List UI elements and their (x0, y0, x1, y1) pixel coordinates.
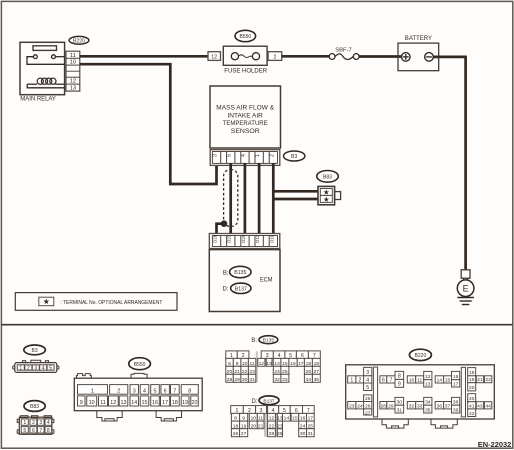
svg-text:SBF-7: SBF-7 (335, 47, 352, 53)
svg-text:12: 12 (425, 374, 431, 380)
svg-text:4: 4 (42, 366, 45, 372)
label B83 ellipse (317, 171, 339, 183)
svg-text:5: 5 (49, 366, 52, 372)
svg-text:31: 31 (249, 377, 255, 383)
svg-text:15: 15 (445, 378, 451, 384)
svg-text:21: 21 (477, 377, 483, 383)
svg-text:4: 4 (47, 420, 50, 426)
svg-text:3: 3 (366, 370, 369, 376)
svg-text:4: 4 (143, 388, 146, 394)
svg-text:2: 2 (359, 378, 362, 384)
svg-text:1: 1 (91, 388, 94, 394)
wire branch to joint connector upper (273, 190, 318, 193)
connector B550 pinout (74, 373, 202, 421)
svg-text:3: 3 (213, 154, 219, 157)
svg-text:35: 35 (425, 407, 431, 413)
relay coil L1 (27, 83, 37, 85)
legend box (15, 293, 177, 311)
svg-text:TEMPERATURE: TEMPERATURE (223, 120, 268, 127)
ground (457, 298, 474, 305)
svg-text:39: 39 (453, 407, 459, 413)
svg-text:6: 6 (164, 388, 167, 394)
svg-text:17: 17 (162, 400, 168, 406)
svg-text:B83: B83 (30, 404, 39, 410)
wire B3-4 to ECM D29 (244, 163, 247, 236)
svg-text:B550: B550 (239, 34, 251, 40)
svg-text:6: 6 (32, 428, 35, 434)
svg-text:30: 30 (300, 431, 306, 437)
svg-text:42: 42 (469, 411, 475, 417)
wire pin11 to fuse holder (80, 55, 209, 58)
svg-text:41: 41 (469, 403, 475, 409)
svg-text:7: 7 (389, 378, 392, 384)
fuse SBF-7 (329, 47, 359, 59)
group 10-13 (407, 376, 415, 383)
group 40-44 (468, 394, 476, 402)
svg-text:B:: B: (223, 270, 229, 276)
svg-text:B135: B135 (234, 270, 246, 276)
group 28-31 (380, 402, 387, 409)
svg-text:17: 17 (298, 361, 304, 367)
svg-text:31: 31 (397, 407, 403, 413)
svg-text:11: 11 (417, 378, 422, 384)
ground E circle (457, 278, 474, 296)
svg-text:27: 27 (241, 431, 247, 437)
wire battery to ground (433, 57, 465, 270)
wire contact right arm to pin 11 (55, 56, 64, 58)
connector B220 pinout (346, 365, 495, 428)
svg-text:15: 15 (142, 400, 148, 406)
svg-text:44: 44 (485, 403, 491, 409)
svg-text:14: 14 (284, 416, 290, 422)
svg-text:19: 19 (182, 400, 188, 406)
wire pin10 to sensor pin3 (80, 64, 217, 184)
wire B3-2 to ECM D10 (272, 163, 275, 236)
svg-text:E: E (463, 283, 469, 293)
svg-text:9: 9 (80, 400, 83, 406)
svg-text:29: 29 (388, 403, 394, 409)
svg-text:16: 16 (290, 361, 296, 367)
row1 (226, 351, 238, 359)
junction shield drain (221, 220, 228, 227)
svg-text:D29: D29 (241, 234, 246, 243)
group 18-22 (468, 368, 476, 376)
svg-text:6: 6 (382, 378, 385, 384)
svg-text:1: 1 (23, 420, 26, 426)
svg-text:30: 30 (397, 400, 403, 406)
svg-text:33: 33 (282, 377, 288, 383)
svg-text:27: 27 (365, 410, 371, 416)
label B220 ellipse (pinout) (409, 349, 431, 360)
ground terminal box (461, 270, 470, 278)
svg-text:14: 14 (131, 400, 137, 406)
svg-text:B550: B550 (134, 362, 146, 368)
svg-text:13: 13 (266, 361, 272, 367)
wire B3-1 to ECM D12 (258, 163, 261, 236)
svg-text:3: 3 (133, 388, 136, 394)
svg-text:8: 8 (188, 388, 191, 394)
row3 (226, 366, 234, 374)
svg-text:ECM: ECM (260, 276, 273, 283)
svg-text:1: 1 (350, 378, 353, 384)
connector B83 pinout (17, 416, 54, 435)
sensor U1 MASS AIR FLOW box (210, 86, 281, 148)
svg-text:B135: B135 (263, 338, 275, 344)
svg-text:12: 12 (110, 400, 116, 406)
svg-text:D12: D12 (255, 234, 260, 243)
svg-text:38: 38 (453, 400, 459, 406)
svg-text:43: 43 (477, 403, 483, 409)
wire contact left arm to pin 10 (27, 57, 65, 65)
group 1-5 (348, 376, 356, 383)
svg-text:3: 3 (39, 420, 42, 426)
svg-text:D:: D: (252, 399, 258, 405)
svg-text:11: 11 (70, 53, 76, 59)
svg-text:1: 1 (19, 366, 22, 372)
svg-text:5: 5 (227, 154, 233, 157)
connector B135 pinout (251, 336, 277, 345)
svg-text:B220: B220 (415, 353, 427, 359)
svg-text:1: 1 (255, 154, 261, 157)
svg-text:34: 34 (425, 400, 431, 406)
svg-text:29: 29 (234, 377, 240, 383)
connector B3 pinout (13, 360, 59, 372)
relay contact terminal right (52, 55, 56, 59)
svg-text:16: 16 (453, 374, 459, 380)
svg-text:34: 34 (306, 377, 312, 383)
connector B137 pinout (252, 396, 280, 405)
svg-text:7: 7 (39, 428, 42, 434)
group 6-9 (380, 376, 387, 383)
svg-text:D28: D28 (213, 234, 218, 243)
svg-text:12: 12 (259, 361, 265, 367)
svg-text:33: 33 (417, 403, 423, 409)
svg-text:32: 32 (274, 377, 280, 383)
svg-text:8: 8 (398, 374, 401, 380)
group 32-35 (407, 402, 415, 409)
svg-text:29: 29 (277, 431, 283, 437)
relay contact terminal left (34, 55, 38, 59)
svg-text:19: 19 (469, 377, 475, 383)
svg-text:11: 11 (100, 400, 106, 406)
svg-text:3: 3 (34, 366, 37, 372)
svg-text:15: 15 (292, 416, 298, 422)
svg-text:25: 25 (365, 396, 371, 402)
svg-text:16: 16 (152, 400, 158, 406)
svg-text:5: 5 (154, 388, 157, 394)
svg-text:9: 9 (398, 382, 401, 388)
group 23-27 (348, 402, 356, 409)
row4 (231, 429, 239, 437)
svg-text:FUSE HOLDER: FUSE HOLDER (224, 68, 267, 75)
svg-text:5: 5 (366, 385, 369, 391)
wire coil return to pin 13 (27, 84, 64, 88)
svg-text:40: 40 (469, 396, 475, 402)
label B3 ellipse (284, 151, 305, 161)
svg-text:D:: D: (223, 287, 229, 293)
svg-text:B3: B3 (32, 348, 38, 354)
svg-text:MAIN RELAY: MAIN RELAY (20, 96, 56, 103)
svg-text:4: 4 (366, 378, 369, 384)
svg-text:B220: B220 (73, 38, 85, 44)
row2 cells 9-20 (78, 396, 86, 406)
svg-text:2: 2 (27, 366, 30, 372)
svg-text:8: 8 (47, 428, 50, 434)
svg-text:: TERMINAL No. OPTIONAL ARRANG: : TERMINAL No. OPTIONAL ARRANGEMENT (60, 300, 163, 306)
label B83 ellipse (pinout) (24, 401, 45, 412)
svg-text:18: 18 (172, 400, 178, 406)
svg-text:20: 20 (192, 400, 198, 406)
svg-text:B3: B3 (291, 154, 297, 160)
svg-text:7: 7 (173, 388, 176, 394)
svg-text:17: 17 (453, 381, 459, 387)
svg-text:24: 24 (357, 403, 363, 409)
wire branch to joint connector lower (273, 198, 318, 201)
svg-text:28: 28 (227, 377, 233, 383)
svg-text:2: 2 (32, 420, 35, 426)
svg-text:13: 13 (121, 400, 127, 406)
svg-text:18: 18 (469, 370, 475, 376)
wire SBF-7 to battery (359, 55, 402, 58)
divider (2, 324, 513, 326)
wire B3-5 to ECM D22 (shielded) (229, 163, 232, 236)
svg-text:22: 22 (485, 377, 491, 383)
connector ECM strip (209, 234, 279, 249)
svg-text:MASS AIR FLOW &: MASS AIR FLOW & (216, 105, 275, 112)
fuse holder body (223, 46, 267, 65)
svg-text:10: 10 (89, 400, 95, 406)
svg-text:26: 26 (365, 403, 371, 409)
svg-text:23: 23 (349, 403, 355, 409)
svg-text:2: 2 (117, 388, 120, 394)
svg-text:SENSOR: SENSOR (231, 128, 260, 135)
svg-text:5: 5 (23, 428, 26, 434)
ECM box (209, 250, 280, 312)
svg-text:31: 31 (308, 431, 314, 437)
svg-text:B137: B137 (263, 398, 275, 404)
svg-text:D22: D22 (227, 234, 232, 243)
label B550 ellipse (235, 30, 256, 41)
svg-text:B83: B83 (323, 174, 332, 180)
svg-text:12: 12 (211, 55, 217, 61)
svg-text:2: 2 (273, 55, 276, 61)
connector B220 pin column (66, 51, 80, 91)
svg-text:26: 26 (233, 431, 239, 437)
joint connector B83 (318, 186, 341, 204)
svg-text:4: 4 (241, 154, 247, 157)
label B220 ellipse (69, 36, 89, 44)
row2 (226, 358, 234, 366)
group 14-17 (435, 376, 443, 383)
fuse holder pin 2 box (268, 52, 282, 61)
svg-text:21: 21 (258, 423, 264, 429)
battery (398, 36, 439, 70)
row2 (231, 413, 239, 421)
row1 cells 1-8 (78, 385, 108, 395)
svg-text:B:: B: (251, 338, 257, 344)
wire fuse holder to SBF-7 (282, 55, 330, 58)
svg-text:10: 10 (70, 60, 76, 66)
svg-text:EN-22032: EN-22032 (478, 440, 512, 449)
row4 (226, 374, 234, 382)
relay MAIN RELAY box (20, 42, 65, 94)
svg-text:INTAKE AIR: INTAKE AIR (228, 112, 264, 119)
svg-text:20: 20 (251, 423, 257, 429)
wire shield drain to ECM D28 (217, 224, 225, 236)
row1 (231, 406, 244, 414)
label B550 ellipse (pinout) (129, 358, 151, 370)
svg-text:13: 13 (425, 381, 431, 387)
svg-text:2: 2 (269, 154, 275, 157)
svg-text:BATTERY: BATTERY (405, 36, 432, 42)
svg-text:13: 13 (70, 86, 76, 92)
connector B3 strip (210, 150, 280, 166)
svg-text:28: 28 (381, 403, 387, 409)
svg-text:28: 28 (269, 431, 275, 437)
svg-text:32: 32 (409, 403, 415, 409)
shield around wire (224, 170, 238, 227)
fuse holder pin 12 box (208, 52, 221, 61)
svg-text:20: 20 (469, 385, 475, 391)
svg-text:30: 30 (242, 377, 248, 383)
svg-text:14: 14 (437, 378, 443, 384)
label B3 ellipse (pinout) (24, 345, 46, 355)
svg-text:37: 37 (445, 403, 451, 409)
svg-text:B137: B137 (235, 287, 247, 293)
svg-text:35: 35 (314, 377, 320, 383)
group 36-39 (435, 402, 443, 409)
svg-text:12: 12 (70, 79, 76, 85)
svg-text:10: 10 (409, 378, 415, 384)
svg-text:36: 36 (437, 403, 443, 409)
svg-text:D10: D10 (269, 234, 274, 243)
relay contact bar (33, 46, 57, 51)
row3 (231, 421, 239, 429)
